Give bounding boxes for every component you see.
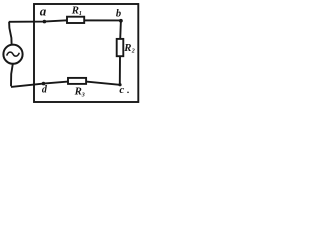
svg-text:b: b xyxy=(116,8,121,19)
stray mark after c xyxy=(127,92,129,94)
wire left: source bottom down to corner d-side xyxy=(11,64,13,86)
sine symbol xyxy=(7,52,20,56)
node c junction dot xyxy=(118,83,121,86)
wire bottom: corner through d and R3 to node c xyxy=(11,82,120,87)
svg-text:3: 3 xyxy=(81,92,85,98)
wire top: source corner to node b xyxy=(9,20,121,22)
wire right: node b down to node c xyxy=(120,21,121,85)
svg-text:R: R xyxy=(123,42,131,54)
svg-text:c: c xyxy=(119,84,124,96)
node b junction dot xyxy=(119,19,123,23)
wire left: corner down to source top xyxy=(9,22,12,44)
resistor R2 box xyxy=(117,39,124,56)
ac source U1 xyxy=(3,45,22,64)
svg-text:1: 1 xyxy=(79,11,82,17)
node d junction dot xyxy=(42,82,46,86)
resistor R3 box xyxy=(68,78,86,84)
svg-text:a: a xyxy=(40,3,47,18)
node a junction dot xyxy=(43,20,47,24)
svg-text:2: 2 xyxy=(131,48,135,54)
svg-text:R: R xyxy=(71,4,79,16)
svg-text:R: R xyxy=(74,86,82,98)
resistor R1 box xyxy=(67,17,84,23)
figure border frame xyxy=(34,4,138,102)
